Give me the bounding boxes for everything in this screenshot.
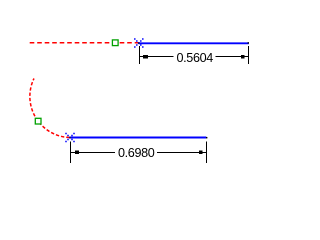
svg-text:0.6980: 0.6980 <box>118 146 155 160</box>
svg-text:0.5604: 0.5604 <box>176 51 213 65</box>
